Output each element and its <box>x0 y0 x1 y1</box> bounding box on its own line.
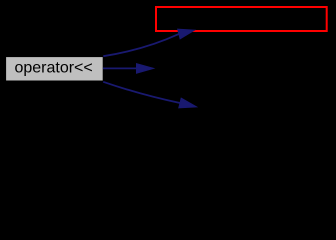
wire edge bottom <box>103 82 196 108</box>
wire edge middle <box>103 64 154 74</box>
node red (truncated callee) <box>156 7 327 31</box>
svg-text:operator<<: operator<< <box>14 60 92 77</box>
wire edge to red node <box>103 29 194 56</box>
node operator<< <box>6 57 104 81</box>
